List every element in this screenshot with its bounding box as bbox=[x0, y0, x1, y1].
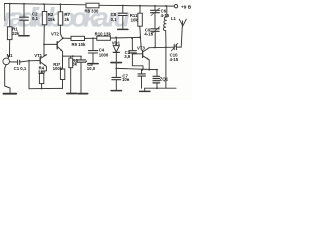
svg-text:R10 13k: R10 13k bbox=[95, 31, 112, 36]
svg-text:R8 330: R8 330 bbox=[85, 9, 99, 14]
svg-text:4-15: 4-15 bbox=[170, 57, 179, 62]
svg-text:+9 В: +9 В bbox=[181, 4, 192, 10]
svg-text:0,1: 0,1 bbox=[32, 16, 39, 21]
svg-text:10,0: 10,0 bbox=[87, 66, 96, 71]
svg-text:VT3: VT3 bbox=[137, 45, 145, 50]
svg-text:C1 0,1: C1 0,1 bbox=[14, 66, 27, 71]
svg-text:L1: L1 bbox=[171, 16, 177, 21]
svg-text:1000: 1000 bbox=[99, 52, 109, 57]
svg-text:330: 330 bbox=[38, 69, 46, 74]
svg-text:2k: 2k bbox=[64, 17, 69, 22]
svg-text:VT2: VT2 bbox=[51, 31, 59, 36]
svg-text:100k: 100k bbox=[53, 66, 63, 71]
svg-text:22k: 22k bbox=[12, 31, 20, 36]
svg-text:VT1: VT1 bbox=[34, 53, 42, 58]
svg-text:4-15: 4-15 bbox=[144, 32, 153, 37]
svg-text:ZQ1: ZQ1 bbox=[160, 77, 169, 82]
svg-text:+: + bbox=[85, 59, 87, 63]
svg-text:3,9: 3,9 bbox=[124, 54, 131, 59]
svg-text:0,1: 0,1 bbox=[111, 17, 118, 22]
svg-text:R9 10k: R9 10k bbox=[72, 42, 86, 47]
svg-text:15k: 15k bbox=[48, 17, 56, 22]
svg-text:4-15: 4-15 bbox=[161, 13, 170, 18]
svg-text:M1: M1 bbox=[7, 53, 14, 58]
svg-text:10k: 10k bbox=[131, 18, 139, 23]
svg-text:3k: 3k bbox=[72, 62, 77, 67]
svg-text:VD1: VD1 bbox=[112, 40, 121, 45]
svg-text:10н: 10н bbox=[122, 77, 130, 82]
